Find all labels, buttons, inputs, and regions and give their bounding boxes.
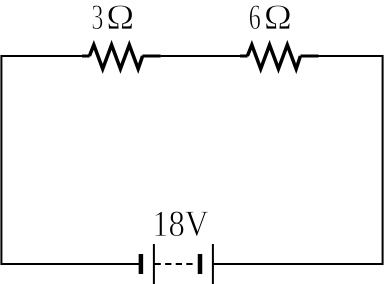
svg-text:18V: 18V	[152, 204, 209, 245]
battery B1 cell 2 negative plate (thick short)	[198, 254, 203, 274]
wire: top-middle segment between resistors	[161, 55, 240, 57]
battery B1 cell 1 positive plate (thin tall)	[153, 244, 155, 284]
battery B1 cell 1 negative plate (thick short)	[139, 254, 144, 274]
resistor R1 (3 ohm)	[82, 55, 90, 58]
svg-text:6: 6	[249, 0, 261, 37]
wire: right loop (battery to bottom-right corner, right side, top-right run)	[213, 56, 383, 264]
svg-text:Ω: Ω	[264, 0, 292, 37]
wire: left loop (top-left corner, left side, bottom-left run to battery)	[1, 56, 139, 264]
svg-text:3: 3	[91, 0, 103, 37]
battery B1 cell 2 positive plate (thin tall)	[212, 244, 214, 284]
svg-text:Ω: Ω	[106, 0, 134, 37]
resistor R2 (6 ohm)	[240, 55, 248, 58]
wire: dashed link between battery cells	[155, 263, 193, 265]
